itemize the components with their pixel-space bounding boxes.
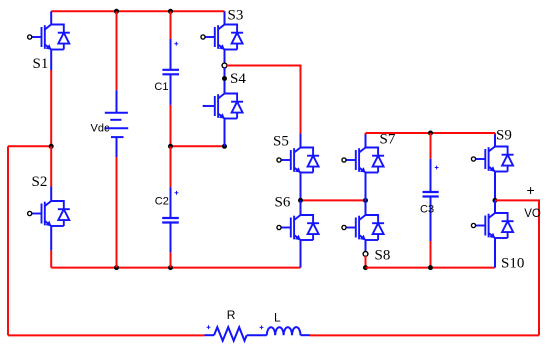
svg-text:R: R bbox=[227, 308, 236, 322]
node C3 bottom junction bbox=[428, 265, 433, 270]
wire C2 top lead bbox=[170, 146, 172, 187]
wire top-right rail bbox=[366, 132, 496, 134]
wire S3 collector stub bbox=[224, 11, 226, 24]
node S7-S8 junction bbox=[363, 198, 368, 203]
transistor S10 bbox=[476, 213, 514, 238]
node open circle S3-S4 bbox=[222, 63, 227, 68]
wire R left lead bbox=[205, 334, 215, 336]
wire S7 collector bbox=[365, 133, 367, 135]
wire node to S4 collector bbox=[224, 68, 226, 94]
svg-text:C1: C1 bbox=[154, 81, 168, 93]
wire S4 gate extension bbox=[203, 105, 206, 107]
wire bottom-right rail bbox=[366, 267, 495, 269]
node S9 gate terminal bbox=[471, 157, 475, 161]
wire C1 top lead bbox=[170, 11, 172, 39]
svg-text:+: + bbox=[527, 182, 535, 198]
wire S8 node to bottom bbox=[365, 256, 367, 268]
svg-text:S6: S6 bbox=[275, 195, 291, 211]
wire battery top lead bbox=[116, 11, 118, 90]
wire bottom rail left part bbox=[8, 334, 205, 336]
transistor S7 bbox=[346, 148, 384, 173]
wire left branch horizontal bbox=[8, 145, 51, 147]
wire bottom-left rail bbox=[51, 267, 300, 269]
wire bottom rail right part bbox=[310, 334, 539, 336]
svg-text:S4: S4 bbox=[230, 71, 246, 87]
svg-text:S1: S1 bbox=[33, 56, 49, 72]
wire battery bottom lead bbox=[116, 138, 118, 157]
svg-text:C3: C3 bbox=[420, 204, 434, 216]
wire S6 collector bbox=[300, 200, 302, 215]
transistor S6 bbox=[281, 215, 319, 240]
wire S9 collector bbox=[494, 133, 496, 135]
polarity mark L bbox=[260, 326, 264, 330]
wire R to L lead bbox=[247, 334, 267, 336]
wire L right lead bbox=[301, 334, 311, 336]
node S5 gate terminal bbox=[277, 158, 281, 162]
node below open circle bbox=[222, 76, 227, 81]
svg-text:C2: C2 bbox=[155, 196, 169, 208]
wire C3 bottom lead bbox=[430, 197, 432, 241]
svg-text:S8: S8 bbox=[375, 248, 391, 264]
wire S3 emitter bbox=[224, 50, 226, 64]
node C mid junction bbox=[168, 144, 173, 149]
wire S8 collector bbox=[365, 200, 367, 215]
node C2 bottom junction bbox=[168, 265, 173, 270]
node S2 gate terminal bbox=[28, 211, 32, 215]
node open circle S8 bottom bbox=[363, 252, 368, 257]
svg-text:S3: S3 bbox=[228, 8, 244, 24]
wire VO output to right edge bbox=[495, 200, 539, 335]
polarity mark C1 bbox=[174, 42, 178, 46]
wire S10 collector bbox=[494, 200, 496, 213]
wire S8 emitter bbox=[365, 240, 367, 252]
wire S10 emitter bbox=[494, 238, 496, 268]
wire S9 emitter bbox=[494, 172, 496, 201]
node battery bottom junction bbox=[114, 265, 119, 270]
wire S4 emitter bbox=[224, 119, 226, 147]
wire S7 emitter bbox=[365, 173, 367, 201]
inductor L bbox=[267, 327, 301, 335]
svg-text:S9: S9 bbox=[496, 128, 512, 144]
capacitor C2 bbox=[162, 218, 179, 223]
transistor S4 bbox=[205, 94, 243, 119]
svg-text:S10: S10 bbox=[501, 256, 524, 272]
node S1 gate terminal bbox=[28, 35, 32, 39]
wire left edge vertical bbox=[7, 146, 9, 335]
svg-text:Vdc: Vdc bbox=[91, 123, 110, 135]
wire mid rail S5S6 to S7S8 bbox=[301, 199, 366, 201]
wire S5 emitter bbox=[300, 173, 302, 201]
wire mid rail C to S4 bbox=[171, 145, 225, 147]
transistor S5 bbox=[281, 148, 319, 173]
capacitor C1 bbox=[162, 70, 179, 75]
node S4 emitter junction bbox=[222, 144, 227, 149]
wire C2 bottom lead bbox=[170, 223, 172, 253]
svg-text:VO: VO bbox=[524, 208, 541, 220]
wire S6 emitter bbox=[300, 240, 302, 268]
node battery top junction bbox=[114, 9, 119, 14]
node left T junction bbox=[49, 144, 54, 149]
wire S5 feed from open node bbox=[227, 66, 301, 134]
svg-text:S2: S2 bbox=[32, 174, 48, 190]
wire C1 bottom lead bbox=[170, 75, 172, 105]
node S10 gate terminal bbox=[471, 223, 475, 227]
svg-text:L: L bbox=[274, 311, 281, 325]
node S6 gate terminal bbox=[277, 225, 281, 229]
polarity mark R bbox=[207, 325, 211, 329]
battery Vdc bbox=[105, 113, 128, 137]
node S9-S10 junction VO bbox=[493, 198, 498, 203]
node S8 bottom junction bbox=[363, 265, 368, 270]
resistor R bbox=[214, 327, 247, 341]
wire top-left rail bbox=[51, 10, 224, 12]
wire S1 collector stub bbox=[50, 11, 52, 24]
svg-text:S7: S7 bbox=[380, 132, 396, 148]
node S7 gate terminal bbox=[342, 158, 346, 162]
transistor S9 bbox=[476, 147, 514, 172]
transistor S1 bbox=[32, 25, 70, 50]
node S8 gate terminal bbox=[342, 225, 346, 229]
node C1 top junction bbox=[168, 9, 173, 14]
polarity mark C2 bbox=[175, 191, 179, 195]
svg-text:S5: S5 bbox=[273, 134, 289, 150]
transistor S8 bbox=[346, 215, 384, 240]
wire S1 emitter bbox=[50, 50, 52, 71]
node C3 top junction bbox=[428, 131, 433, 136]
node S5-S6 junction bbox=[298, 198, 303, 203]
wire S2 emitter bbox=[50, 226, 52, 251]
transistor S2 bbox=[32, 201, 70, 226]
wire C3 top lead bbox=[430, 133, 432, 159]
capacitor C3 bbox=[423, 192, 439, 197]
wire S2 collector bbox=[50, 146, 52, 186]
polarity mark C3 bbox=[435, 166, 439, 170]
transistor S3 bbox=[205, 25, 243, 50]
node S3 gate terminal bbox=[201, 35, 205, 39]
